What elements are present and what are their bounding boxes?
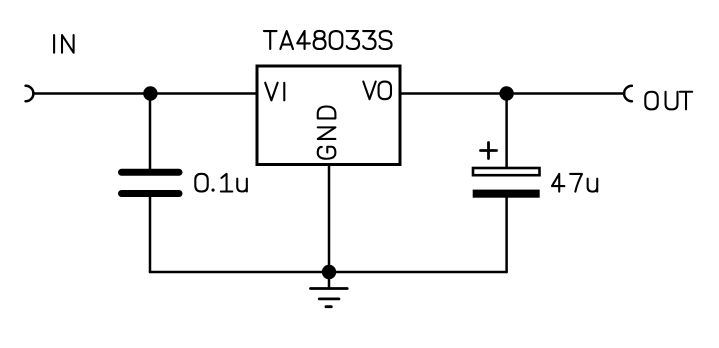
label IN <box>54 35 74 53</box>
capacitor C1 0.1u <box>122 172 180 193</box>
wire C1 bottom plate to ground rail <box>149 197 152 273</box>
ground symbol <box>311 289 348 307</box>
wire junction to ground symbol <box>328 272 331 289</box>
junction node at ground rail <box>322 265 336 279</box>
value label 47u <box>552 174 597 192</box>
wire IN terminal to VI pin <box>33 92 257 95</box>
junction node at OUT rail / C2 <box>499 86 513 100</box>
pin label VO <box>363 82 391 100</box>
pin label VI <box>265 83 284 101</box>
wire GND pin to ground rail <box>328 165 331 273</box>
wire VO pin to OUT terminal <box>400 92 624 95</box>
regulator U1 TA48033S box <box>257 66 400 165</box>
terminal OUT (open pin arc) <box>624 86 632 102</box>
junction node at IN rail / C1 <box>143 86 157 100</box>
wire junction down to C1 top plate <box>149 94 152 170</box>
part label TA48033S <box>264 31 392 49</box>
capacitor C2 47u (polarized) <box>473 168 540 198</box>
pin label GND (rotated) <box>318 106 336 158</box>
label OUT <box>645 92 692 110</box>
value label 0.1u <box>195 174 247 192</box>
wire C2 bottom plate to ground rail <box>505 198 508 272</box>
terminal IN (open pin arc) <box>26 86 34 102</box>
wire junction down to C2 top plate <box>505 94 508 169</box>
ground rail wire <box>150 271 507 274</box>
polarity + mark <box>481 143 497 159</box>
